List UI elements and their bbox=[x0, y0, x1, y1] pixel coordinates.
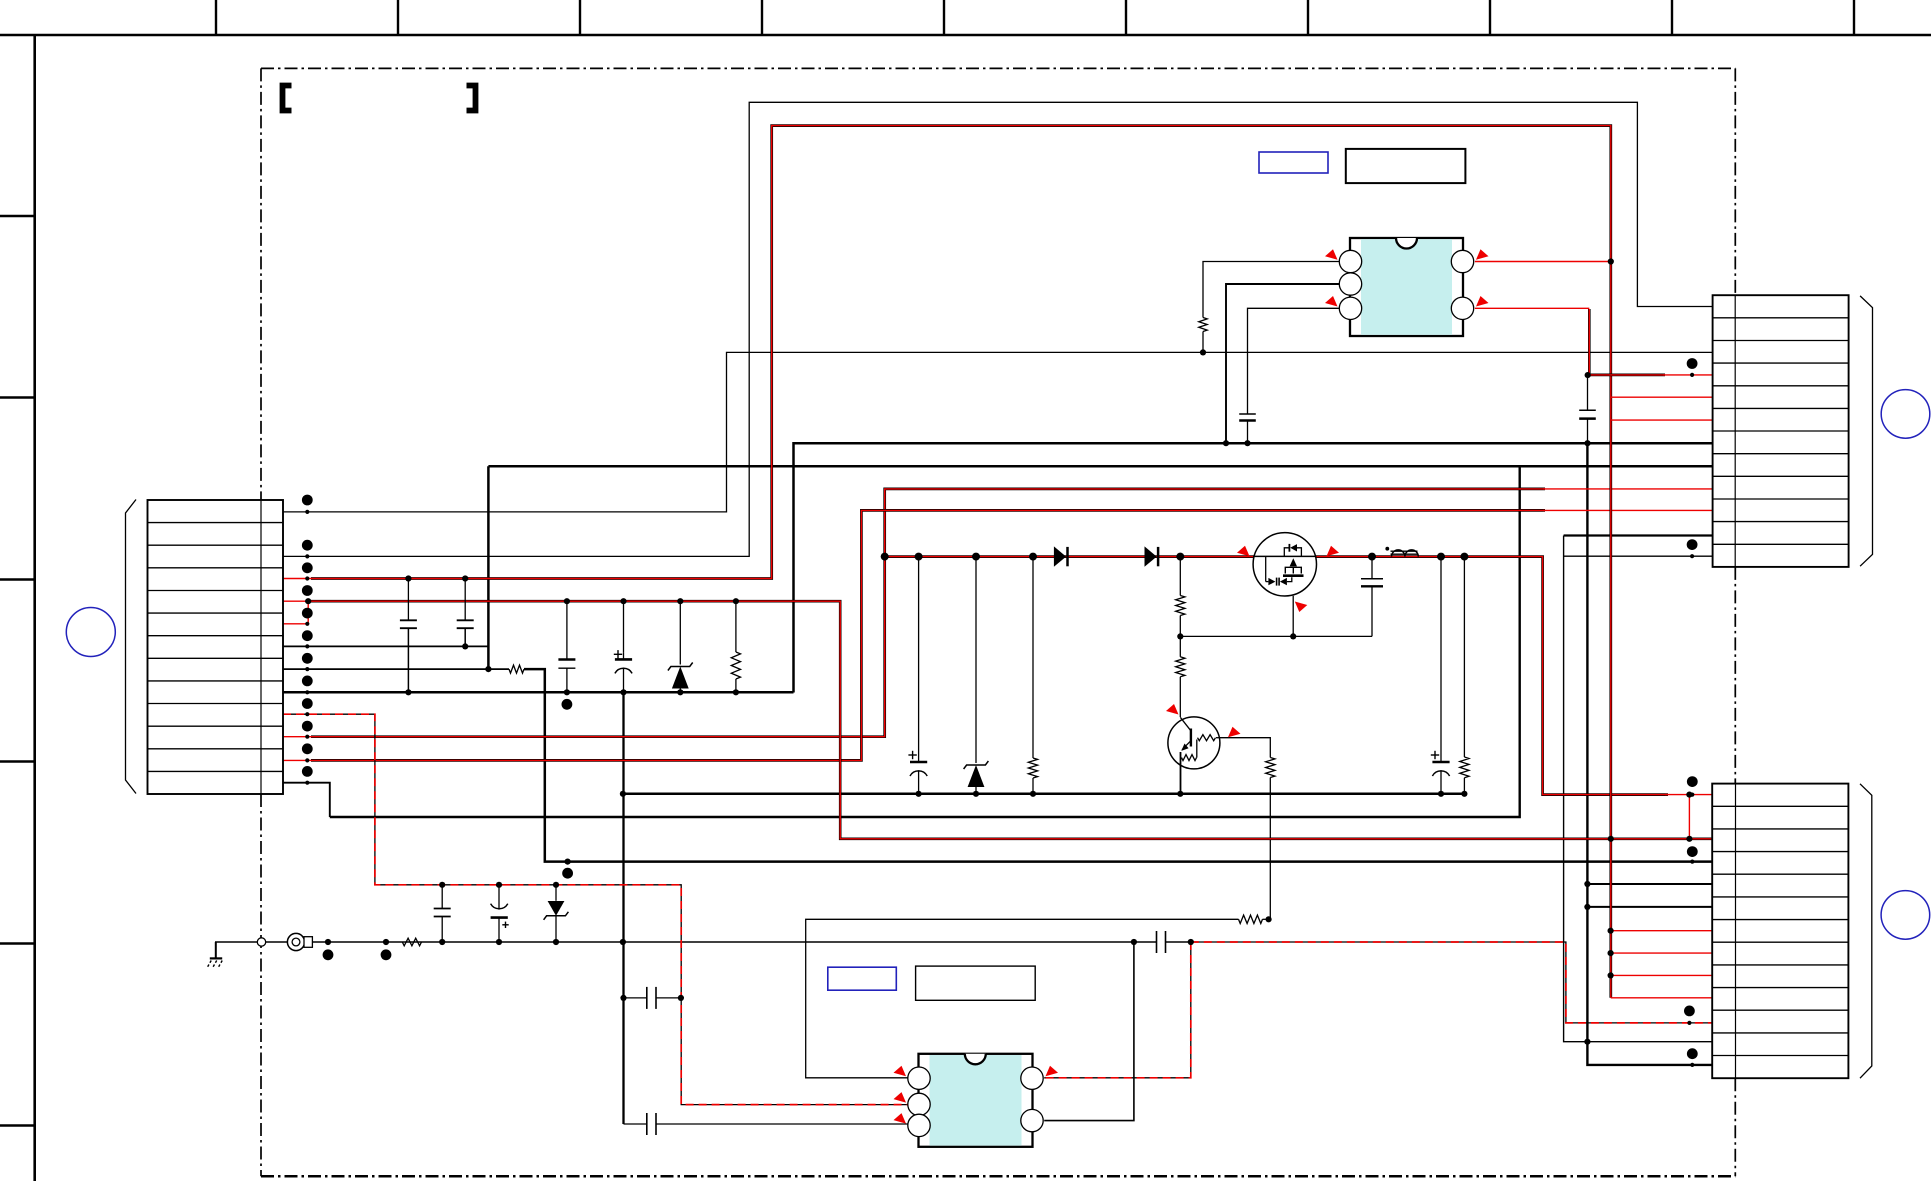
label box black bottom bbox=[916, 966, 1036, 1000]
connector CN1 bracket bbox=[126, 500, 137, 794]
opening bracket label bbox=[283, 86, 292, 111]
wire branch pair x884 CN1-11 to CN2-9 bbox=[283, 489, 1713, 737]
wire U1 pin1 to R7 bbox=[1203, 262, 1339, 353]
capacitor C3 stub bbox=[566, 601, 568, 692]
capacitor C2 stub bbox=[464, 579, 466, 647]
resistor R7 bbox=[1199, 318, 1207, 332]
dash-dot power-block boundary box bbox=[261, 68, 1735, 1176]
wire B+ rail (red/black pair) to CN3-1 bbox=[885, 557, 1713, 795]
ring terminal lug bbox=[287, 933, 312, 950]
red arrow U2 pin2 bbox=[894, 1092, 907, 1103]
resistor R10 bbox=[1239, 915, 1263, 923]
resistor R2 bbox=[509, 665, 524, 673]
transistor Q2 bbox=[1168, 717, 1220, 794]
wire Q2 collector to R11 bbox=[1220, 738, 1271, 920]
wire gate feedback y636 bbox=[1180, 635, 1372, 637]
capacitor C9 electrolytic bbox=[1431, 557, 1450, 794]
wire pair CN1-5 to CN3-3 bbox=[283, 601, 1713, 839]
resistor R11 bbox=[1266, 758, 1275, 778]
zener diode D5 bbox=[544, 885, 569, 942]
wire CN1-9 ground return bbox=[283, 691, 794, 694]
wire junction dots bbox=[305, 258, 1692, 1044]
wire net x1563 to CN2-11/12 and CN3-12 bbox=[1564, 536, 1713, 1042]
reference circle C bbox=[1881, 891, 1930, 940]
wire red branch CN2-6 bbox=[1611, 419, 1713, 421]
capacitor C10 series bbox=[647, 1113, 656, 1135]
wire thick gnd riser x1587 to CN3 bbox=[1587, 443, 1712, 1065]
wire red branch CN2-5 bbox=[1611, 396, 1713, 398]
chassis ground bbox=[207, 942, 223, 969]
resistor R6 chain bbox=[1176, 636, 1185, 717]
wire bottom bus y794 bbox=[623, 793, 1465, 796]
connector CN3 bracket bbox=[1860, 784, 1872, 1078]
optocoupler U2 bbox=[908, 1054, 1043, 1147]
red arrow U2 pin4 bbox=[1046, 1066, 1059, 1077]
optocoupler U1 bbox=[1339, 238, 1473, 336]
capacitor C2 bbox=[457, 620, 474, 628]
diode D1 bbox=[1054, 546, 1068, 566]
red arrow Q2 collector bbox=[1228, 727, 1241, 738]
resistor R1 stub bbox=[735, 601, 737, 692]
red arrow Q1 source bbox=[1327, 546, 1340, 557]
wire dashed to U2 pin4 bbox=[1044, 942, 1191, 1078]
wire riser x623 with branch bbox=[624, 601, 908, 1124]
capacitor C1 bbox=[400, 620, 417, 628]
red arrow Q1 gate bbox=[1295, 602, 1308, 613]
resistor R1 bbox=[731, 652, 740, 679]
capacitor C6 stub bbox=[1371, 557, 1373, 637]
wire pair C8 node to CN2-4 bbox=[1588, 374, 1713, 377]
reference circle B bbox=[1881, 390, 1930, 439]
wire branch pair x861 CN1-12 to CN2-10 bbox=[283, 510, 1713, 760]
label box blue top bbox=[1259, 152, 1328, 173]
wire red branch CN3-9 bbox=[1611, 974, 1713, 976]
resistor R9 bbox=[1460, 757, 1469, 778]
wire vertical node B to CN2-8 line bbox=[488, 466, 1712, 669]
label box black top bbox=[1346, 149, 1466, 183]
wire dashed main to CN3-11 bbox=[1191, 942, 1713, 1023]
wire C8 stubs bbox=[1587, 375, 1589, 443]
capacitor C11 series bbox=[1157, 931, 1166, 953]
red arrow U1 pin5 bbox=[1476, 296, 1489, 307]
red arrow Q1 drain bbox=[1237, 546, 1250, 557]
capacitor C5 electrolytic bbox=[908, 557, 927, 794]
wire D-line y443 to CN2-7 bbox=[794, 443, 1713, 692]
wire Q1 source down bbox=[1292, 596, 1294, 637]
resistor R5 chain bbox=[1176, 557, 1185, 637]
wire main ground line y942 bbox=[215, 941, 1191, 943]
red arrow U1 pin4 bbox=[1476, 249, 1489, 259]
wire red U1 pin4 bbox=[1475, 261, 1611, 263]
capacitor C4 electrolytic bbox=[614, 650, 632, 692]
wire net CN1-1 to CN2-3 (thin) bbox=[283, 352, 1713, 512]
connector CN2 bracket bbox=[1860, 296, 1872, 566]
connector CN1 body bbox=[148, 500, 284, 794]
wire CN1-8 through R2 to GND bus bbox=[283, 669, 1713, 862]
red arrow Q2 base bbox=[1166, 704, 1179, 715]
wire net CN1-3 top loop to CN2-1 (thin) bbox=[283, 102, 1713, 556]
wire x1134 to U2 pin5 bbox=[1044, 942, 1134, 1121]
solder point dots bbox=[323, 553, 1469, 961]
connector CN3 body bbox=[1712, 784, 1848, 1079]
wire red CN3-1 to CN3-3 link bbox=[1688, 795, 1690, 839]
zener diode D4 bbox=[964, 557, 989, 794]
resistor R9 stub bbox=[1463, 557, 1465, 794]
label box blue bottom bbox=[828, 967, 897, 990]
wire red branch CN3-10 bbox=[1611, 997, 1713, 999]
wire pair CN1-4 top loop down right side bbox=[283, 126, 1611, 998]
wire CN1-13 to riser x1519 bbox=[283, 466, 1520, 817]
wire red branch CN3-8 bbox=[1611, 952, 1713, 954]
inductor L1 bbox=[1385, 547, 1418, 557]
MOSFET Q1 bbox=[1253, 533, 1316, 596]
connector CN1 pin dots bbox=[302, 495, 313, 785]
red arrow U2 pin1 bbox=[894, 1066, 907, 1077]
resistor R3 stub bbox=[1032, 557, 1034, 794]
resistor R3 bbox=[1028, 758, 1037, 778]
resistor R4 bbox=[402, 938, 421, 946]
wire U1 pin2 down bbox=[1226, 284, 1339, 443]
wire red CN1-6 jog bbox=[283, 601, 308, 624]
wire dashed CN1-10 to U2 pin2 bbox=[283, 714, 908, 1104]
connector CN2 CN3 pin dots bbox=[1684, 358, 1698, 1067]
wire shield box to U2 pin1 bbox=[806, 919, 1269, 1078]
diode D2 bbox=[1145, 546, 1159, 566]
capacitor C6 bbox=[1361, 579, 1383, 587]
capacitor C13 electrolytic bbox=[491, 885, 509, 942]
capacitor C1 stub bbox=[407, 579, 409, 693]
zener diode D3 bbox=[668, 601, 693, 692]
wire red U1 pin5 to C8 node bbox=[1475, 308, 1589, 375]
wire U1 pin3 via C7 bbox=[1248, 308, 1340, 443]
capacitor C7 bbox=[1239, 414, 1256, 421]
red arrow U1 pin1 bbox=[1325, 249, 1338, 259]
boundary circle on ground wire bbox=[257, 938, 265, 946]
capacitor C8 bbox=[1579, 410, 1596, 418]
wire CN1-7 stub bbox=[283, 645, 488, 647]
connector CN2 body bbox=[1713, 295, 1849, 567]
capacitor C12 bbox=[434, 885, 451, 942]
red arrow U2 pin3 bbox=[894, 1113, 907, 1124]
reference circle A bbox=[66, 608, 115, 657]
capacitor C3 bbox=[558, 660, 575, 669]
capacitor C14 bbox=[624, 987, 682, 1009]
red arrow U1 pin3 bbox=[1325, 296, 1338, 307]
wire red branch CN3-7 bbox=[1611, 930, 1713, 932]
closing bracket label bbox=[467, 86, 476, 111]
